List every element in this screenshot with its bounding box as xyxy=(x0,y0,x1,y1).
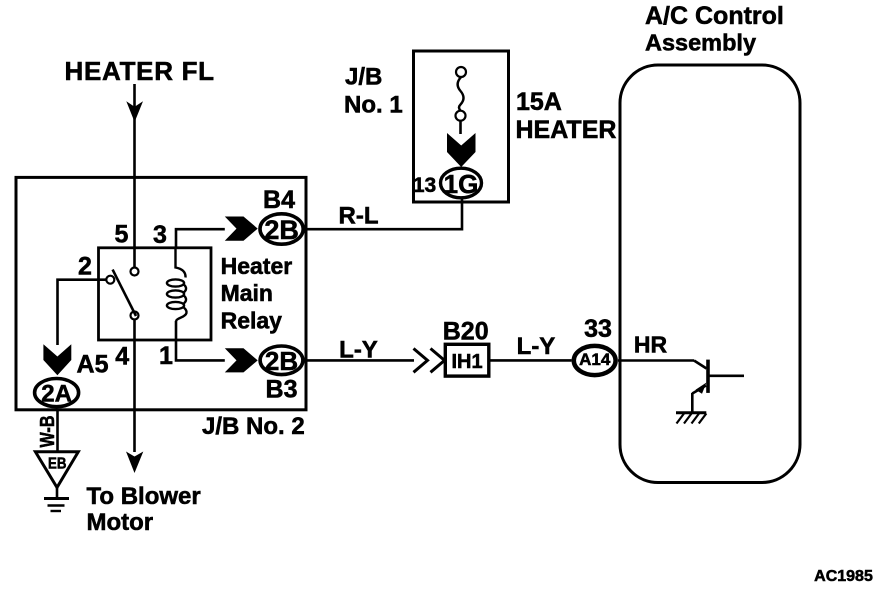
svg-text:J/B: J/B xyxy=(345,64,382,91)
svg-text:A/C Control: A/C Control xyxy=(645,2,784,30)
svg-text:HR: HR xyxy=(634,332,668,358)
svg-text:R-L: R-L xyxy=(339,203,379,230)
svg-text:No. 1: No. 1 xyxy=(344,92,403,119)
svg-text:To Blower: To Blower xyxy=(87,483,201,510)
svg-text:Relay: Relay xyxy=(221,307,283,333)
svg-text:13: 13 xyxy=(413,174,436,197)
svg-text:J/B No. 2: J/B No. 2 xyxy=(202,413,305,440)
svg-text:2A: 2A xyxy=(41,381,72,408)
svg-text:4: 4 xyxy=(115,343,129,371)
wire emitter to ground xyxy=(691,393,694,413)
svg-text:L-Y: L-Y xyxy=(517,333,556,360)
relay switch contact pin 4 xyxy=(131,312,139,320)
wire W-B to ground xyxy=(56,409,59,452)
svg-text:L-Y: L-Y xyxy=(339,337,378,364)
svg-text:IH1: IH1 xyxy=(451,351,482,373)
wire R-L xyxy=(305,199,463,229)
svg-text:2: 2 xyxy=(78,253,92,281)
svg-text:HEATER FL: HEATER FL xyxy=(65,56,215,86)
wire pin 4 to blower motor xyxy=(133,320,136,453)
connector arrow 1G xyxy=(447,133,476,167)
ground (chassis) in A/C assembly xyxy=(676,411,706,414)
svg-text:5: 5 xyxy=(115,221,129,249)
svg-text:AC1985: AC1985 xyxy=(814,568,873,585)
svg-text:15A: 15A xyxy=(516,88,562,116)
svg-text:33: 33 xyxy=(584,315,612,343)
svg-text:Main: Main xyxy=(221,280,273,306)
relay box Heater Main Relay outline xyxy=(99,248,212,340)
svg-text:Heater: Heater xyxy=(221,253,293,279)
svg-text:Motor: Motor xyxy=(87,509,154,536)
fuse 15A HEATER xyxy=(456,67,466,77)
wire pin 2 xyxy=(58,280,107,345)
wire L-Y (second) xyxy=(489,359,572,362)
svg-text:2B: 2B xyxy=(264,215,299,245)
connector oval 2B (B4) xyxy=(260,214,303,244)
connector box B20 IH1 xyxy=(445,344,489,376)
junction box J/B No. 1 outline xyxy=(414,51,509,202)
wire pin 1 to connector B3 xyxy=(176,340,225,361)
connector arrow A5 xyxy=(43,344,71,375)
svg-text:3: 3 xyxy=(153,221,167,249)
A/C Control Assembly outline xyxy=(620,65,800,483)
svg-text:B4: B4 xyxy=(263,186,295,214)
svg-text:B3: B3 xyxy=(266,376,298,404)
connector oval 2B (B3) xyxy=(260,346,303,375)
relay coil xyxy=(176,248,186,278)
relay switch fixed contact pin 5 xyxy=(131,268,139,276)
svg-text:A14: A14 xyxy=(579,350,611,369)
relay switch pivot contact pin 2 xyxy=(106,276,114,284)
svg-text:Assembly: Assembly xyxy=(645,30,756,56)
arrowhead HEATER FL feed xyxy=(126,101,143,122)
svg-text:HEATER: HEATER xyxy=(516,116,617,144)
transistor Q (PNP) xyxy=(706,360,710,393)
arrowhead to blower motor xyxy=(126,452,143,474)
connector oval 2A xyxy=(35,379,79,407)
relay switch arm xyxy=(113,270,136,316)
junction box J/B No. 2 outline xyxy=(16,177,306,409)
wire L-Y xyxy=(305,359,414,362)
svg-text:B20: B20 xyxy=(443,318,489,346)
connector oval 1G xyxy=(441,168,482,198)
wire HEATER FL feed vertical xyxy=(133,84,136,268)
svg-text:A5: A5 xyxy=(77,351,109,379)
connector arrow B4 xyxy=(225,217,258,241)
svg-text:1: 1 xyxy=(159,342,173,370)
svg-text:1G: 1G xyxy=(444,169,479,199)
svg-text:EB: EB xyxy=(48,456,67,473)
wire HR xyxy=(618,359,694,362)
ground EB triangle xyxy=(35,452,78,488)
connector arrow B3 xyxy=(225,348,258,372)
connector oval A14 xyxy=(574,346,616,375)
svg-text:W-B: W-B xyxy=(37,416,59,448)
wire pin 3 to connector B4 xyxy=(176,229,225,248)
ground earth symbol xyxy=(56,488,59,498)
inline connector chevrons xyxy=(414,349,428,373)
svg-text:2B: 2B xyxy=(265,346,298,376)
